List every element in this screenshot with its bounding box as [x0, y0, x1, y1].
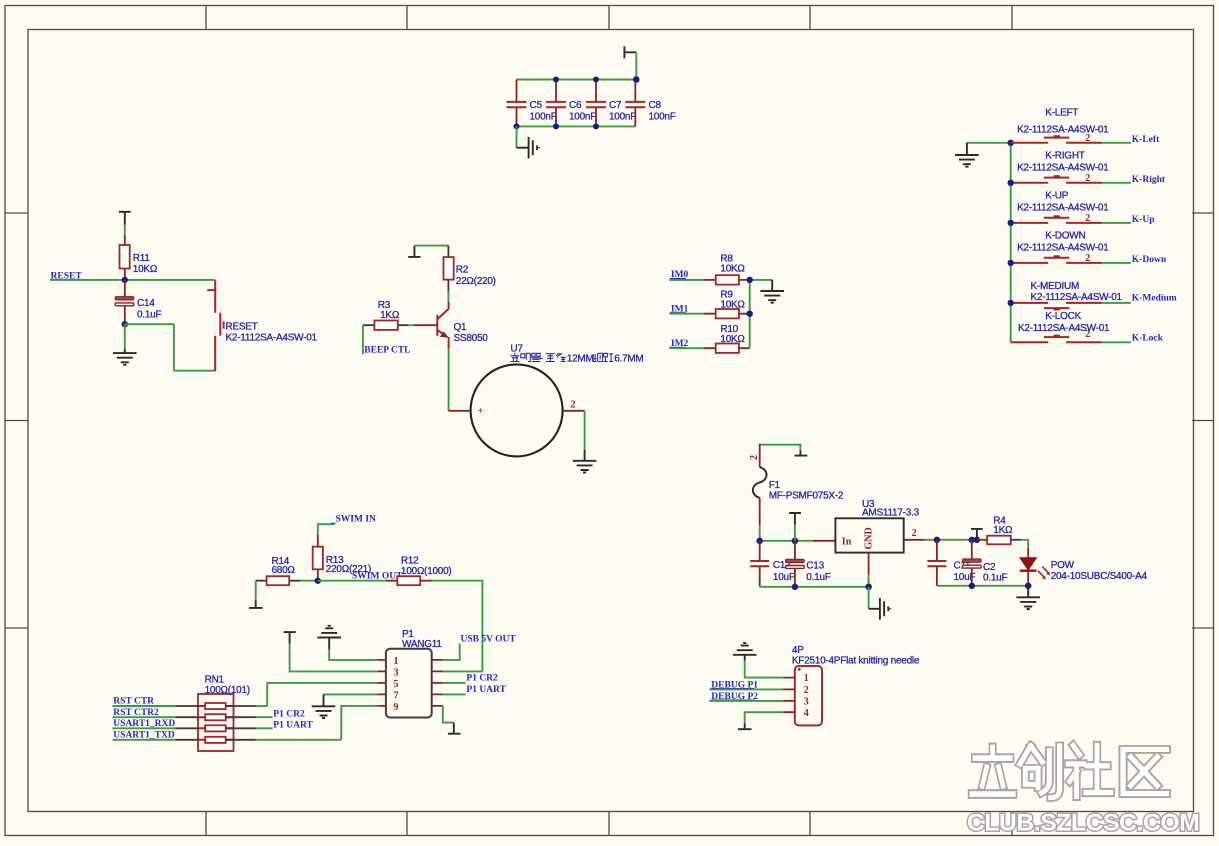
wire 4P pin4 to bar ground: [745, 712, 783, 723]
resistor R14: [256, 576, 318, 585]
bar ground below R14: [249, 600, 263, 608]
regulator U3 AMS1117-3.3: [835, 518, 903, 552]
svg-text:RN1: RN1: [205, 674, 225, 685]
svg-text:204-10SUBC/S400-A4: 204-10SUBC/S400-A4: [1051, 571, 1148, 582]
svg-text:P1 UART: P1 UART: [273, 721, 313, 731]
wire power bar to rail: [794, 525, 796, 541]
svg-text:K2-1112SA-A4SW-01: K2-1112SA-A4SW-01: [1031, 292, 1123, 303]
net label IM0: [670, 270, 689, 280]
capacitor C5: [507, 80, 527, 127]
wire RN1 row1 up to P1 pin5 wire: [256, 705, 267, 707]
svg-text:Q1: Q1: [454, 322, 468, 333]
svg-text:1KΩ: 1KΩ: [380, 310, 400, 321]
svg-text:10KΩ: 10KΩ: [133, 264, 158, 275]
net label IM2: [670, 339, 689, 349]
svg-text:0.1uF: 0.1uF: [806, 572, 830, 583]
capacitor C13 (thick plates): [786, 541, 805, 587]
svg-text:K2-1112SA-A4SW-01: K2-1112SA-A4SW-01: [1017, 203, 1109, 214]
P1 pin numbers: [394, 656, 399, 713]
wire P1 pin1 right to USB 5V OUT: [443, 644, 460, 660]
LED POW 204-10SUBC/S400-A4: [1020, 548, 1050, 586]
wire C14 to ground: [124, 324, 126, 349]
svg-text:7: 7: [394, 690, 399, 701]
capacitor C14 (thick plates): [115, 280, 134, 324]
fuse F1 MF-PSMF075X-2: [753, 444, 767, 525]
earth ground at P1 pin7: [312, 694, 336, 718]
svg-text:F1: F1: [769, 480, 781, 491]
svg-text:-: -: [540, 354, 543, 365]
svg-text:K2-1112SA-A4SW-01: K2-1112SA-A4SW-01: [1017, 163, 1109, 174]
svg-text:10KΩ: 10KΩ: [720, 300, 745, 311]
junction R13/R14/R12: [315, 578, 321, 584]
wire K-Left: [1102, 142, 1131, 144]
power bar above C2: [971, 529, 983, 540]
svg-text:2: 2: [571, 400, 576, 411]
wire DEBUG P1: [709, 688, 783, 690]
switch RESET K2-1112SA-A4SW-01 (vertical): [207, 280, 223, 370]
junction R11/C14/RESET: [122, 277, 128, 283]
svg-text:K-RIGHT: K-RIGHT: [1045, 150, 1085, 161]
switch K-MEDIUM (button below): [1014, 303, 1102, 310]
frame ticks left: [5, 213, 28, 628]
svg-text:R2: R2: [456, 264, 469, 275]
switch K-LEFT: [1011, 136, 1102, 143]
wire key ground bus: [967, 143, 1011, 342]
wire K-Up: [1102, 222, 1131, 224]
junction dots input rail: [756, 538, 798, 545]
watermark char SHE: [1068, 745, 1111, 796]
wire K-Lock: [1102, 341, 1131, 343]
net label RST CTR: [113, 697, 176, 707]
connector P1 WANG11: [377, 649, 443, 718]
junction dots key bus: [1008, 140, 1014, 306]
wire F1 to input rail: [759, 525, 761, 541]
frame ticks bottom: [206, 812, 1012, 836]
svg-text:100Ω(101): 100Ω(101): [205, 685, 250, 696]
svg-text:12MM-: 12MM-: [567, 354, 597, 365]
wire K-Medium: [1102, 302, 1131, 304]
svg-text:K2-1112SA-A4SW-01: K2-1112SA-A4SW-01: [1018, 323, 1110, 334]
junction dot U3 gnd: [865, 584, 872, 591]
wire IM2: [669, 347, 704, 349]
svg-text:BEEP CTL: BEEP CTL: [364, 345, 410, 355]
4P pin numbers: [804, 673, 809, 719]
ground (rotated earth) below U3: [869, 598, 891, 620]
svg-text:+: +: [478, 406, 484, 417]
svg-text:C14: C14: [137, 298, 155, 309]
svg-text:K-Left: K-Left: [1132, 135, 1160, 145]
capacitor C6: [546, 80, 566, 127]
svg-text:2: 2: [749, 455, 760, 460]
frame ticks right: [1192, 213, 1214, 628]
resistor R10: [704, 344, 750, 353]
svg-text:0.1uF: 0.1uF: [137, 310, 161, 321]
wire RESET net: [50, 279, 215, 281]
connector 4P KF2510-4P: [783, 666, 822, 726]
junction dot C13 ground: [792, 584, 798, 590]
net label USART1_TXD: [113, 730, 176, 740]
junction C14 bottom: [122, 321, 128, 327]
earth ground right of IM bus: [760, 280, 784, 303]
svg-text:2: 2: [1085, 213, 1090, 224]
svg-text:U7: U7: [510, 343, 523, 354]
capacitor C2 (thick plates): [963, 540, 982, 586]
svg-text:WANG11: WANG11: [402, 639, 442, 650]
earth ground below C14: [113, 349, 137, 365]
earth ground left of key bus: [955, 143, 979, 167]
wire R2 to Q1 collector: [447, 291, 449, 302]
junction dots cap bank top rail: [553, 76, 640, 83]
net label USART1_RXD: [113, 719, 176, 729]
wire P1 pin9 right to bar ground: [443, 706, 454, 723]
resistor R4: [977, 536, 1028, 548]
wire DEBUG P2: [709, 700, 783, 702]
svg-text:K2-1112SA-A4SW-01: K2-1112SA-A4SW-01: [226, 332, 318, 343]
switch K-LOCK: [1011, 336, 1102, 343]
wire SWIM IN to R13: [318, 524, 335, 536]
resistor R12: [386, 576, 432, 585]
svg-text:AMS1117-3.3: AMS1117-3.3: [862, 507, 920, 518]
ground (rotated earth) below C5: [517, 137, 540, 159]
svg-text:2: 2: [1085, 133, 1090, 144]
wire P1 pin3 to power bar: [290, 644, 378, 672]
wire top rail: [517, 79, 637, 81]
svg-text:10KΩ: 10KΩ: [720, 264, 745, 275]
svg-text:CLUB.SZLCSC.COM: CLUB.SZLCSC.COM: [967, 810, 1199, 837]
wire C14 junction to switch bottom: [125, 324, 216, 371]
wire P1 pin9 from USART1_TXD: [341, 706, 377, 740]
buzzer U7 value (Chinese, drawn as glyph strokes): [510, 353, 613, 362]
svg-text:RESET: RESET: [226, 322, 258, 333]
wire IM1: [669, 313, 704, 315]
svg-text:100Ω(1000): 100Ω(1000): [401, 566, 452, 577]
wire power to top rail: [635, 52, 637, 79]
resistor R13: [313, 535, 323, 580]
wire P1 pin7 to earth: [324, 693, 378, 695]
svg-text:K2-1112SA-A4SW-01: K2-1112SA-A4SW-01: [1017, 243, 1109, 254]
svg-text:100nF: 100nF: [609, 112, 636, 123]
svg-text:C2: C2: [983, 562, 996, 573]
earth ground below buzzer: [573, 450, 597, 473]
wire 4P pin1 to inverted earth: [745, 661, 783, 678]
svg-text:POW: POW: [1051, 560, 1075, 571]
resistor R3: [363, 321, 437, 330]
svg-text:22Ω(220): 22Ω(220): [456, 276, 496, 287]
wire SWIM OUT: [318, 580, 386, 582]
svg-text:SS8050: SS8050: [454, 333, 489, 344]
wire U3 gnd to rotated earth: [868, 587, 870, 609]
svg-text:2: 2: [1085, 253, 1090, 264]
power flag (rotated bar) top of cap bank: [624, 46, 636, 58]
svg-text:5: 5: [394, 679, 399, 690]
junction dots output ground rail: [969, 583, 1032, 590]
watermark char QU: [1123, 749, 1166, 793]
svg-text:0.1uF: 0.1uF: [983, 573, 1007, 584]
svg-text:3: 3: [804, 697, 809, 708]
svg-text:4: 4: [804, 708, 809, 719]
frame ticks top: [206, 6, 1012, 30]
svg-text:1: 1: [394, 656, 399, 667]
wire IM0: [669, 279, 704, 281]
wire K-Down: [1102, 262, 1131, 264]
svg-text:P1 UART: P1 UART: [466, 685, 506, 695]
net label RST CTR2: [113, 708, 176, 718]
net label SWIM IN: [331, 515, 377, 525]
svg-text:K-LEFT: K-LEFT: [1045, 108, 1078, 119]
watermark char CHUANG: [1020, 746, 1060, 798]
switch K-DOWN: [1014, 256, 1102, 263]
net label SWIM OUT: [352, 572, 403, 582]
wire input rail: [760, 540, 813, 542]
resistor network RN1: [198, 694, 234, 751]
svg-text:K-DOWN: K-DOWN: [1045, 230, 1085, 241]
power bar above P1 pin3: [284, 632, 296, 643]
U3 pin 2: [904, 528, 925, 540]
svg-text:SWIM IN: SWIM IN: [336, 515, 377, 525]
wire P1 pin1 to inverted earth: [329, 649, 377, 660]
capacitor C11: [927, 540, 946, 586]
wire P1 pin7 right: [443, 693, 466, 695]
junction dots output rail: [934, 537, 980, 543]
wire bottom rail to ground: [516, 126, 518, 147]
capacitor C7: [586, 80, 606, 127]
wire RN1 row4 long to P1 pin9: [256, 739, 341, 741]
svg-text:100nF: 100nF: [569, 112, 596, 123]
wire P1 pin5 right: [443, 682, 466, 684]
capacitor C12: [750, 541, 769, 587]
svg-text:MF-PSMF075X-2: MF-PSMF075X-2: [769, 491, 844, 502]
svg-text:10uF: 10uF: [773, 572, 795, 583]
wire RN1 row3 stub: [256, 727, 273, 729]
wire In pin: [813, 540, 835, 542]
svg-text:K-Up: K-Up: [1132, 215, 1155, 225]
earth ground below LED: [1016, 586, 1040, 609]
svg-text:R11: R11: [133, 253, 151, 264]
svg-text:C6: C6: [569, 100, 582, 111]
power bar right of F1: [795, 450, 808, 455]
wire power to R11: [124, 225, 126, 237]
svg-text:KF2510-4PFlat knitting needle: KF2510-4PFlat knitting needle: [792, 655, 920, 666]
svg-text:680Ω: 680Ω: [272, 565, 296, 576]
resistor R2: [444, 246, 454, 292]
wire K-Right: [1102, 182, 1131, 184]
wire input ground rail: [760, 586, 869, 588]
svg-text:C7: C7: [609, 100, 622, 111]
resistor R9: [704, 309, 750, 318]
wire P1 pin5 from RN1: [267, 683, 377, 706]
bar ground below 4P pin4: [738, 723, 752, 729]
svg-text:K-Lock: K-Lock: [1132, 334, 1164, 344]
wire output ground rail: [937, 585, 1028, 587]
svg-text:3: 3: [394, 667, 399, 678]
RN1 right leads: [226, 706, 256, 740]
svg-text:10KΩ: 10KΩ: [720, 334, 745, 345]
svg-text:6.7MM: 6.7MM: [614, 354, 643, 365]
net label DEBUG P1: [711, 680, 758, 690]
svg-text:K-UP: K-UP: [1045, 190, 1068, 201]
svg-text:R12: R12: [401, 556, 419, 567]
buzzer U7: [449, 364, 585, 456]
wire P1 pin3 right stub: [443, 670, 483, 672]
wire R12 to P1 pin3: [432, 581, 483, 672]
power flag above R11: [119, 212, 131, 225]
svg-text:P1 CR2: P1 CR2: [466, 673, 498, 683]
svg-text:C13: C13: [806, 561, 824, 572]
svg-text:K-Down: K-Down: [1132, 255, 1167, 265]
svg-text:USB 5V OUT: USB 5V OUT: [461, 634, 517, 644]
power bar above C13: [789, 513, 801, 525]
svg-text:C5: C5: [530, 100, 543, 111]
inverted earth ground above P1 pin1: [317, 626, 341, 650]
net label BEEP CTL: [363, 325, 411, 355]
U3 GND pin down: [868, 553, 870, 575]
wire R14 to ground: [255, 581, 257, 600]
resistor R8: [704, 275, 750, 284]
svg-text:K-MEDIUM: K-MEDIUM: [1031, 281, 1080, 292]
wire power to R2: [414, 245, 448, 247]
wire output rail: [925, 539, 977, 541]
inverted earth ground above 4P pin1: [733, 643, 757, 660]
wire Q1 emitter to buzzer: [448, 349, 450, 411]
switch K-UP: [1014, 216, 1102, 223]
svg-text:100nF: 100nF: [649, 112, 676, 123]
svg-text:1: 1: [804, 673, 809, 684]
wire RN1 row2 stub: [256, 716, 273, 718]
junction dots IM bus: [747, 277, 753, 317]
wire F1 top to power bar: [760, 445, 801, 451]
svg-text:GND: GND: [863, 527, 874, 549]
svg-text:K-LOCK: K-LOCK: [1045, 311, 1081, 322]
transistor Q1 SS8050: [437, 302, 449, 349]
svg-text:K2-1112SA-A4SW-01: K2-1112SA-A4SW-01: [1017, 125, 1109, 136]
switch K-RIGHT: [1014, 176, 1102, 183]
svg-text:In: In: [842, 537, 852, 548]
svg-text:2: 2: [1085, 173, 1090, 184]
net label DEBUG P2: [711, 692, 758, 702]
svg-text:100nF: 100nF: [530, 112, 557, 123]
svg-text:P1 CR2: P1 CR2: [273, 710, 305, 720]
svg-text:2: 2: [804, 685, 809, 696]
net label IM1: [670, 304, 689, 314]
junction dots cap bank bottom rail: [514, 123, 600, 129]
wire buzzer pin2 to ground: [584, 411, 586, 450]
svg-text:9: 9: [394, 702, 399, 713]
capacitor C8: [625, 80, 645, 127]
svg-text:R3: R3: [378, 300, 391, 311]
watermark char LI: [972, 747, 1014, 794]
svg-text:K-Medium: K-Medium: [1132, 294, 1177, 304]
svg-text:1KΩ: 1KΩ: [993, 525, 1013, 536]
bar ground below P1 pin9: [448, 723, 461, 734]
wire IM ground bus: [750, 280, 773, 348]
power flag left of R2: [408, 246, 420, 257]
resistor R11: [120, 236, 130, 278]
wire bottom rail: [517, 125, 636, 127]
RN1 left leads: [175, 706, 198, 740]
svg-text:K-Right: K-Right: [1132, 175, 1166, 185]
svg-text:2: 2: [912, 528, 917, 539]
svg-text:C8: C8: [649, 100, 662, 111]
svg-text:2: 2: [1085, 329, 1090, 340]
